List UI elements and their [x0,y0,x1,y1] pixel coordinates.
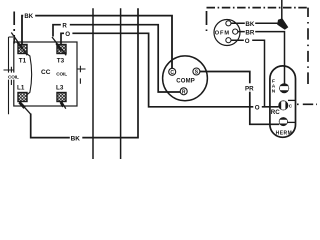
svg-text:C: C [170,70,174,76]
svg-text:T3: T3 [57,58,65,65]
svg-text:COIL: COIL [8,74,19,79]
contactor contact arc T1-L1 [27,54,32,95]
contactor CC box [14,42,77,106]
svg-text:RC: RC [271,109,280,116]
field wire arrow into T1 [11,33,27,56]
svg-text:R: R [62,22,67,29]
dash-dot unit boundary left [13,12,15,44]
terminal S of compressor [193,68,200,75]
terminal T3 [57,45,66,54]
field wire arrow at L3 [62,102,66,109]
svg-text:L1: L1 [17,84,25,91]
wire O [61,33,279,107]
wire BK bottom [31,8,138,137]
svg-text:R: R [182,90,186,96]
wire vertical off-page 1 [92,8,94,159]
OFM terminal bottom [226,38,231,43]
svg-text:BK: BK [245,21,254,28]
compressor COMP circle [163,56,208,101]
svg-text:COIL: COIL [56,72,67,77]
jumper HERM terminal to edge [288,121,296,123]
wire OFM BR to capacitor FAN [238,32,285,84]
svg-text:BK: BK [24,14,33,20]
svg-text:PR: PR [245,86,254,93]
wire OFM BK [231,22,278,24]
terminal L3 [57,93,66,102]
svg-text:L3: L3 [56,84,64,91]
coil right symbol [77,66,86,84]
svg-text:O: O [245,38,250,45]
wire stub from top edge to splice [281,0,283,20]
svg-text:CC: CC [41,69,51,76]
svg-text:BK: BK [71,135,81,142]
svg-text:OFM: OFM [215,31,230,37]
svg-text:T1: T1 [19,58,27,65]
coil left symbol [4,37,14,114]
OFM terminal middle [233,29,238,34]
OFM motor circle [214,20,240,46]
capacitor FAN terminal [279,83,289,93]
field wire arrow from L1 [20,102,31,114]
svg-text:COMP: COMP [176,78,195,84]
terminal T1 [18,45,27,54]
wire OFM O [231,40,265,107]
jumper C terminal to edge [288,99,296,101]
wire S to HERM with PR label [200,72,279,125]
svg-text:N: N [272,89,276,95]
svg-text:HERM: HERM [276,131,293,137]
capacitor HERM terminal [279,117,288,126]
field wire arrow into T3 [52,37,66,55]
capacitor C terminal [278,100,288,110]
dash-dot unit boundary right [207,8,318,105]
wire vertical off-page 2 [120,8,122,159]
capacitor RC outline [270,66,296,137]
wire R [53,25,180,92]
svg-text:O: O [65,31,70,38]
OFM terminal top [226,21,231,26]
terminal C of compressor [169,68,176,75]
terminal L1 [18,93,27,102]
svg-text:BR: BR [245,30,254,37]
wire BK top horizontal [22,16,172,71]
terminal R of compressor [180,88,187,95]
splice arrow symbol [277,18,288,30]
svg-text:O: O [255,104,260,111]
svg-text:C: C [289,103,293,108]
